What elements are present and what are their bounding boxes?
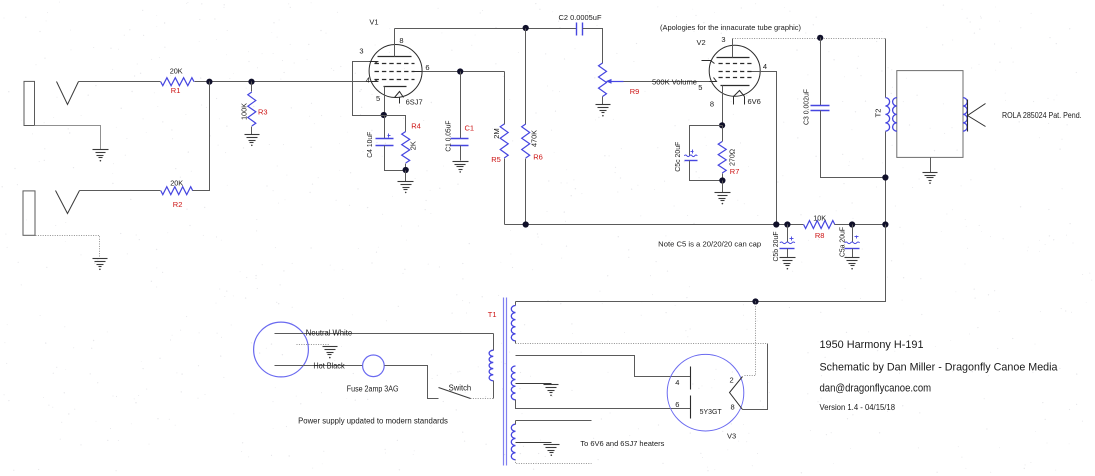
transformer T1 heater coil [511,424,515,460]
wire neutral [275,333,494,335]
node V2 cathode junction [719,122,725,128]
svg-text:C5c 20uF: C5c 20uF [673,141,682,171]
wire R7 top lead [722,126,724,142]
speaker pole bar [967,100,969,132]
wire C1 top lead [460,72,462,139]
tube V1 pin 4 hook [371,80,378,82]
wire heater center tap [516,442,552,444]
tube V3 plate pin 6 [690,396,692,419]
svg-text:Power supply updated to modern: Power supply updated to modern standards [298,417,448,426]
svg-text:C4 10uF: C4 10uF [365,131,374,157]
wire J1 sleeve to ground [35,126,101,150]
svg-text:500K Volume: 500K Volume [652,78,697,87]
svg-text:8: 8 [399,36,403,45]
ground safety [323,346,338,348]
tube V2 grid row 1 [719,63,752,65]
wire cathode to R4 [384,116,406,132]
svg-text:Hot Black: Hot Black [313,362,345,371]
wire C5b top lead [787,225,789,243]
tube V1 heater lead [399,98,401,104]
node rail / C5b [784,221,790,227]
wire T2 primary bottom [885,132,887,302]
capacitor C2 plates [576,23,578,36]
tube V2 envelope [709,45,760,96]
wire 5V center tap [516,383,552,385]
wire R3 top lead [251,82,253,92]
input jack J1 tip contact [57,82,79,105]
svg-text:8: 8 [731,402,735,411]
ground under R7 [715,192,731,194]
wire V2 pin3 rail [733,38,886,40]
ground under R4 [398,181,414,183]
tube V2 stub grid row1 [702,61,715,64]
speaker frame box [897,71,963,158]
svg-text:Switch: Switch [449,383,472,392]
resistor R7 [718,142,726,174]
resistor R6 [522,124,530,158]
speaker voice coil [963,98,967,132]
transformer T2 secondary coil [893,98,897,132]
label plus C5a [855,236,859,238]
resistor R1 [161,78,194,86]
ground under C5b [780,257,796,259]
svg-text:V1: V1 [369,18,378,27]
node rail / C5a [849,221,855,227]
node rail / V2 grid resistor [773,221,779,227]
wire HV secondary bottom [515,341,517,344]
tube V2 heater [734,91,745,97]
wire C2 to R9 [583,29,603,64]
svg-text:To 6V6 and 6SJ7 heaters: To 6V6 and 6SJ7 heaters [580,439,664,448]
tube V3 envelope [667,354,744,431]
wire R6 bottom lead [525,159,527,225]
transformer T2 primary coil [885,98,889,132]
wire R6 top lead [525,29,527,125]
node plate rail / R6 [523,25,529,31]
node V1 cathode junction [381,112,387,118]
node C3 tap [817,35,823,41]
transformer T1 core [503,298,505,466]
capacitor C3 [811,105,830,107]
wire 5V secondary top [516,356,691,377]
wire R9 bottom lead [602,97,604,105]
node rail / main feed [882,221,888,227]
svg-text:R9: R9 [630,87,640,96]
wire cathode to C4 [384,116,386,139]
transformer T1 HV secondary coil [511,306,515,341]
label plus C5b [790,238,794,240]
wire pin8 to HV winding [743,344,768,410]
svg-text:4: 4 [763,62,767,71]
wire C1 bottom lead [460,146,462,161]
svg-text:V3: V3 [727,431,736,440]
wire to C5c [690,126,723,156]
capacitor C4 [376,138,394,140]
wire HV bottom to V3 pin8 [516,343,768,345]
wire C3 bottom lead [821,111,886,178]
tube V1 pin 8 lead [394,29,396,57]
wire heater secondary bottom [516,460,592,464]
svg-text:Note C5 is a 20/20/20 can cap: Note C5 is a 20/20/20 can cap [658,240,761,249]
tube V3 filament chevron [730,377,743,410]
resistor R5 [500,124,508,158]
resistor R4 [402,132,410,164]
wire J1 to R1 [79,81,161,83]
transformer T1 5V secondary coil [511,366,515,400]
wire B+ rail right [835,224,886,226]
svg-text:2K: 2K [409,141,418,150]
wire R4 bottom lead [405,164,407,171]
svg-text:V2: V2 [697,38,706,47]
node junction R3 tap [248,79,254,85]
switch blade [439,388,471,399]
svg-text:C1 0.05uF: C1 0.05uF [444,120,453,151]
wire R7 bottom lead [722,174,724,181]
node R7/C5c ground junction [719,177,725,183]
ground under J2 [93,258,108,260]
wire heater secondary top [516,420,592,422]
resistor R2 [161,187,193,195]
svg-text:C5a 20uF: C5a 20uF [838,227,847,257]
wire C5b bottom lead [787,249,789,258]
tube V2 plate [717,57,750,59]
wire C5c to junction [690,161,723,181]
svg-text:6: 6 [675,400,679,409]
input jack J2 tip contact [56,191,80,214]
wire R5 top lead [504,72,506,125]
svg-text:T1: T1 [488,310,497,319]
svg-text:Neutral White: Neutral White [306,329,353,338]
svg-text:6V6: 6V6 [748,97,761,106]
tube V1 cathode [384,86,407,88]
label plus C4 [388,135,391,137]
ground under J1 [93,149,109,151]
svg-text:5Y3GT: 5Y3GT [700,407,722,416]
svg-text:3: 3 [721,35,725,44]
wire fuse to switch [385,366,439,399]
ground under C1 [453,161,469,163]
svg-text:1950 Harmony H-191: 1950 Harmony H-191 [820,339,924,351]
wire heater top lead [515,421,517,425]
ground under speaker [923,172,938,174]
fuse F1 [363,355,385,377]
wire T2 primary top [885,39,887,98]
wire speaker frame to ground [930,158,932,173]
wire T1 primary bottom lead [493,381,495,399]
ground heater center tap [544,444,560,446]
wire hot to fuse [275,365,363,367]
node R4/C4 ground junction [403,167,409,173]
tube V1 envelope [369,45,422,98]
svg-text:100K: 100K [240,103,249,120]
wire B+ rail left [505,224,804,226]
node rectifier output [752,298,758,304]
svg-text:R2: R2 [173,200,183,209]
svg-text:C1: C1 [465,124,475,133]
tube V2 grid row 2 [719,71,752,73]
node C1 tap [457,68,463,74]
wire V1 plate rail [395,28,577,30]
svg-text:5: 5 [698,83,702,92]
resistor R3 [248,92,256,126]
svg-text:6SJ7: 6SJ7 [406,98,423,107]
tube V2 cathode [721,85,750,87]
capacitor C5b [780,242,795,244]
wire HV secondary top [515,302,517,306]
tube V1 heater [395,92,404,98]
svg-text:ROLA 285024 Pat. Pend.: ROLA 285024 Pat. Pend. [1002,111,1082,120]
capacitor C5c [684,155,697,157]
wire V1 pin6 to R5 [423,71,505,73]
wire switch to T1 [471,398,494,400]
svg-text:20K: 20K [170,178,183,187]
wire junction to ground [405,171,407,182]
tube V2 heater leads [733,97,735,105]
capacitor C5a [845,242,860,244]
wire R2 riser to node [193,82,210,191]
svg-text:R7: R7 [730,167,740,176]
wire C5a bottom lead [852,249,854,258]
wire safety ground lead [297,344,330,346]
tube V2 pin 3 lead [732,39,734,58]
AC plug [254,322,309,377]
svg-text:R8: R8 [815,231,825,240]
wire to ground V2 cathode [722,181,724,193]
svg-text:T2: T2 [873,109,882,118]
wire C5a top lead [852,225,854,243]
resistor R8 [804,221,835,229]
tube V2 pin 5 hook [710,78,717,82]
svg-text:C5b 20uF: C5b 20uF [771,231,780,261]
ground under R3 [245,134,260,136]
node junction R1/R2 [206,79,212,85]
svg-text:Fuse 2amp 3AG: Fuse 2amp 3AG [347,384,399,393]
svg-text:4: 4 [366,76,370,85]
ground under R9 [596,104,611,106]
svg-text:R4: R4 [411,122,421,131]
wire T1 primary top lead [493,334,495,351]
wire J2 to R2 [80,190,161,192]
wire wiper to V2 pin5 [624,81,710,83]
svg-text:4: 4 [675,378,679,387]
svg-text:8: 8 [710,100,714,109]
svg-text:dan@dragonflycanoe.com: dan@dragonflycanoe.com [820,383,932,395]
tube V1 pin 3 hook [370,62,378,64]
wire R1 to V1 grid [195,81,371,83]
svg-text:Version 1.4 - 04/15/18: Version 1.4 - 04/15/18 [820,403,896,412]
svg-text:R1: R1 [171,86,181,95]
svg-text:20K: 20K [170,67,183,76]
wire C3 top lead [820,38,822,106]
tube V3 plate pin 4 [690,367,692,390]
svg-text:R6: R6 [533,153,543,162]
speaker cone lines [968,104,986,116]
svg-text:Schematic by Dan Miller - Drag: Schematic by Dan Miller - Dragonfly Cano… [820,362,1059,374]
wire C4 to bottom [385,146,406,171]
wire V2 cathode lead [722,86,724,126]
svg-text:6: 6 [425,63,429,72]
tube V1 grid row 3 [375,79,415,81]
node rail / R6 [523,221,529,227]
tube V1 grid row 2 [375,71,415,73]
wire J2 sleeve to ground [36,236,100,258]
wire 5V secondary bottom [516,400,691,409]
svg-text:C2 0.0005uF: C2 0.0005uF [559,13,602,22]
input jack J2 body [23,191,35,235]
svg-text:R3: R3 [258,108,268,117]
svg-text:10K: 10K [813,213,826,222]
tube V1 plate [378,56,412,58]
svg-text:2: 2 [730,376,734,385]
svg-text:3: 3 [359,47,363,56]
wire main feed down [516,225,886,302]
wire V1 cathode lead [384,87,386,116]
wire R3 bottom lead [251,127,253,135]
svg-text:R5: R5 [491,155,501,164]
wire R5 bottom lead [504,159,506,225]
wire rectifier output to pin2 [744,302,756,376]
transformer T1 primary coil [489,350,493,381]
svg-text:270Ω: 270Ω [728,149,737,166]
input jack J1 body [24,81,35,125]
ground 5V center tap [544,384,559,386]
wire pin3 feedback route [353,62,384,116]
tube V1 pin 6 wire [415,71,423,73]
label plus C5c [691,151,694,153]
tube V2 grid row 3 [719,77,752,79]
potentiometer R9 [599,63,607,97]
svg-text:2M: 2M [492,128,501,138]
svg-text:470K: 470K [530,130,539,147]
tube V1 grid row 1 [375,63,415,65]
svg-text:5: 5 [376,94,380,103]
svg-text:(Apologies for the innacurate: (Apologies for the innacurate tube graph… [660,23,801,32]
node T2 bottom / C3 [882,174,888,180]
capacitor C1 [451,138,469,140]
tube V2 pin 4 wire [752,72,777,225]
ground under C5a [845,257,860,259]
svg-text:C3 0.002uF: C3 0.002uF [802,89,811,125]
wiper arrow R9 [606,79,612,84]
